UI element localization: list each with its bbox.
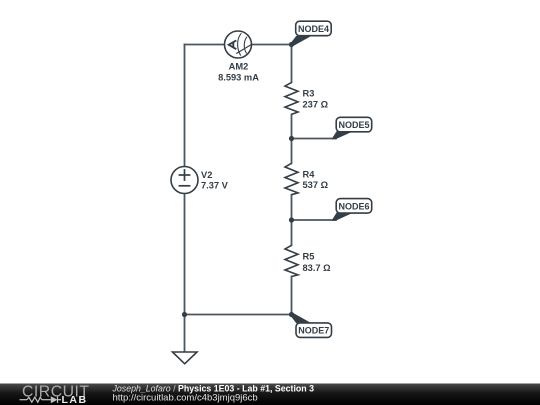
wire left vertical lower xyxy=(184,194,186,315)
svg-text:537 Ω: 537 Ω xyxy=(303,180,329,190)
svg-text:http://circuitlab.com/c4b3jmjq: http://circuitlab.com/c4b3jmjq9j6cb xyxy=(113,392,258,403)
wire right vertical R3 to R4 xyxy=(291,114,293,163)
svg-text:NODE6: NODE6 xyxy=(338,201,369,211)
junction node5 xyxy=(289,136,294,141)
svg-text:237 Ω: 237 Ω xyxy=(303,99,329,109)
junction node6 xyxy=(289,217,294,222)
footer bar xyxy=(0,384,540,405)
wire top-right horizontal xyxy=(252,44,292,46)
voltage source V2 xyxy=(171,167,198,194)
svg-text:8.593 mA: 8.593 mA xyxy=(218,72,259,82)
wire node5 stub xyxy=(292,138,337,140)
node NODE5 flag xyxy=(332,117,372,139)
junction bottom-left xyxy=(182,312,187,317)
wire bottom horizontal xyxy=(185,314,292,316)
svg-text:AM2: AM2 xyxy=(229,62,249,72)
svg-text:NODE5: NODE5 xyxy=(338,120,369,130)
logo wire-resistor-diode xyxy=(20,397,62,403)
wire node6 stub xyxy=(292,219,337,221)
svg-text:LAB: LAB xyxy=(62,394,88,405)
svg-text:R5: R5 xyxy=(303,252,315,262)
ammeter AM2 xyxy=(225,31,252,58)
label V2 xyxy=(201,170,229,190)
node NODE4 flag xyxy=(290,21,331,46)
wire right vertical node4 to R3 xyxy=(291,45,293,83)
svg-text:R4: R4 xyxy=(303,169,316,179)
wire right vertical R4 to R5 xyxy=(291,195,293,246)
resistor R5 xyxy=(285,245,298,276)
label R3 xyxy=(303,89,329,110)
node NODE6 flag xyxy=(332,199,372,221)
junction node4 xyxy=(289,42,294,47)
svg-text:7.37 V: 7.37 V xyxy=(201,180,229,190)
svg-text:NODE7: NODE7 xyxy=(298,326,329,336)
junction node7 xyxy=(289,312,294,317)
svg-text:R3: R3 xyxy=(303,89,315,99)
wire ground stem xyxy=(184,315,186,352)
svg-text:NODE4: NODE4 xyxy=(298,24,329,34)
wire left vertical upper xyxy=(184,45,186,167)
svg-text:83.7 Ω: 83.7 Ω xyxy=(303,263,332,273)
ground xyxy=(173,352,198,364)
label R4 xyxy=(303,169,329,190)
node NODE7 flag xyxy=(290,313,331,338)
label AM2 xyxy=(218,62,259,83)
svg-text:V2: V2 xyxy=(201,170,212,180)
wire right vertical R5 to bottom xyxy=(291,277,293,315)
label R5 xyxy=(303,252,332,273)
wire top-left horizontal xyxy=(185,44,225,46)
resistor R3 xyxy=(285,82,298,114)
resistor R4 xyxy=(285,163,298,194)
